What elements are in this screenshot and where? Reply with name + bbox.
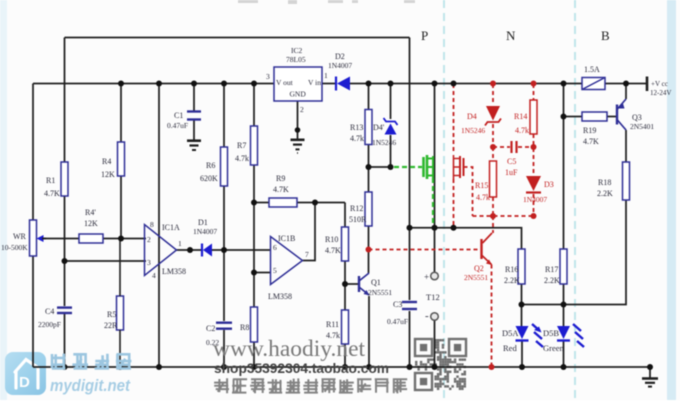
svg-text:R4: R4 [102, 157, 111, 166]
svg-text:GND: GND [290, 90, 307, 99]
battery terminal + (T12) [431, 272, 439, 280]
svg-text:IC1A: IC1A [162, 223, 180, 232]
wire: P gate column (top rail down through C3) [409, 38, 411, 301]
svg-text:3: 3 [266, 72, 270, 81]
resistor R4' [79, 234, 103, 243]
wire: Q3 collector/emitter column [625, 84, 627, 100]
logo text shuma zhijia (fake cjk) [51, 353, 131, 369]
red source dashed down [453, 179, 455, 228]
wire: node y167 [369, 166, 391, 168]
svg-text:510R: 510R [349, 215, 367, 224]
svg-text:R18: R18 [598, 178, 611, 187]
svg-text:Green: Green [543, 343, 565, 353]
svg-text:2.2K: 2.2K [544, 276, 560, 285]
battery terminal - (T12) [431, 313, 439, 321]
resistor R7 [251, 126, 258, 165]
svg-text:D3: D3 [544, 180, 554, 189]
svg-text:R6: R6 [206, 161, 215, 170]
resistor R4 [118, 142, 125, 176]
resistor R12 [365, 192, 372, 226]
resistor R19 [582, 112, 607, 121]
ground bus dots [62, 364, 68, 370]
svg-text:1N4007: 1N4007 [523, 195, 547, 204]
svg-text:R1: R1 [46, 176, 55, 185]
svg-text:R12: R12 [350, 204, 363, 213]
wire: main +V bus [33, 83, 274, 85]
svg-text:0.47uF: 0.47uF [167, 121, 188, 130]
svg-text:C1: C1 [174, 111, 183, 120]
resistor R6 [221, 147, 228, 186]
capacitor C2 [216, 322, 232, 324]
svg-text:1N4007: 1N4007 [193, 227, 217, 236]
svg-text:8: 8 [150, 220, 154, 229]
transistor Q1 [358, 276, 360, 292]
svg-text:+: + [424, 272, 429, 282]
LED D5A [516, 326, 529, 339]
wire: R16/D5A column [521, 284, 523, 326]
svg-text:1uF: 1uF [505, 168, 518, 177]
cropped title remnants [238, 0, 415, 4]
svg-text:R4': R4' [85, 208, 96, 217]
red drain dashed from bus [453, 84, 455, 154]
+V terminal bar [646, 77, 649, 92]
capacitor C5 (red) [510, 141, 512, 153]
svg-text:WR: WR [13, 232, 27, 241]
svg-text:R5: R5 [107, 310, 116, 319]
svg-text:D5A: D5A [502, 328, 519, 338]
wire: R9 row and down to R10 [254, 202, 269, 204]
zone separator (cyan dashed) right [574, 0, 576, 400]
svg-text:R8: R8 [240, 323, 249, 332]
svg-text:4.7k: 4.7k [350, 134, 364, 143]
svg-text:2: 2 [300, 105, 304, 114]
diode D3 (red) [526, 176, 541, 191]
resistor R10 [342, 227, 349, 261]
QR code [415, 339, 466, 390]
wire: ground right drop [649, 367, 651, 378]
wire: pin7 output [303, 203, 316, 261]
wire: WR column [32, 84, 34, 221]
svg-text:2.2K: 2.2K [504, 276, 520, 285]
mydigit logo icon [5, 352, 46, 395]
svg-text:620K: 620K [200, 174, 218, 183]
red dashed node row y216 [473, 215, 534, 217]
red column D4/R15 [492, 84, 494, 105]
svg-text:B: B [601, 28, 610, 43]
svg-text:C5: C5 [507, 157, 516, 166]
svg-text:3: 3 [147, 258, 151, 267]
wire: R19 row [564, 116, 583, 118]
diode D2 [335, 77, 337, 91]
svg-text:1N5246: 1N5246 [372, 138, 396, 147]
svg-text:1: 1 [324, 71, 328, 80]
svg-text:+V cc: +V cc [651, 80, 668, 88]
svg-text:78L05: 78L05 [286, 55, 306, 64]
red base dashed from R12/Q1 node [369, 249, 482, 251]
svg-text:R16: R16 [505, 265, 518, 274]
left edge tint [0, 0, 7, 400]
svg-text:1N5246: 1N5246 [461, 126, 485, 135]
wire: charge row y227.7 [410, 228, 522, 249]
svg-text:www.haodiy.net: www.haodiy.net [213, 336, 366, 361]
wire: R7/R8 column [253, 84, 255, 127]
resistor R11 [342, 310, 349, 344]
resistor R17 [560, 249, 567, 284]
svg-text:C2: C2 [206, 324, 215, 333]
wire: Q1 emitter down [368, 296, 370, 367]
svg-text:2N5551: 2N5551 [464, 273, 488, 282]
zone separator (cyan dashed) left [443, 0, 445, 400]
svg-text:Red: Red [503, 343, 517, 353]
svg-text:D1: D1 [198, 218, 208, 227]
resistor R18 [623, 162, 630, 200]
ground under IC2 pin2 [297, 101, 299, 139]
wire: T12 column [434, 84, 436, 273]
svg-text:4.7K: 4.7K [273, 185, 289, 194]
red gate lead to y216 [464, 167, 473, 216]
transistor Q3 [616, 105, 618, 125]
wire: pin5 stub [254, 272, 271, 274]
red junction dots on bus [490, 81, 496, 87]
wire: IC1A supply column pin8/pin4 [158, 84, 160, 368]
resistor R15 (red) [492, 147, 494, 161]
resistor R8 [251, 307, 258, 342]
wire: R1/C4 column [64, 38, 66, 163]
red row y147 with C5 [493, 146, 510, 148]
ground under C1 [193, 121, 195, 141]
svg-text:V out: V out [276, 78, 294, 87]
svg-text:2.2K: 2.2K [597, 189, 613, 198]
svg-text:IC2: IC2 [291, 46, 303, 55]
op-amp IC1B [271, 237, 303, 285]
svg-text:LM358: LM358 [268, 292, 292, 301]
resistor R16 [518, 249, 525, 284]
resistor R13 [365, 110, 372, 145]
svg-text:12-24V: 12-24V [650, 89, 671, 97]
svg-text:N: N [506, 28, 516, 43]
svg-text:Q3: Q3 [632, 113, 642, 122]
MOSFET (red, mirrored) [454, 155, 464, 179]
wire: bottom ground bus [33, 366, 650, 368]
transistor Q2 (red) [492, 216, 494, 233]
svg-text:R11: R11 [326, 320, 339, 329]
wire: pin3 line [65, 260, 147, 262]
LED D5B [557, 326, 570, 339]
svg-text:Q2: Q2 [474, 264, 484, 273]
svg-text:2N5551: 2N5551 [368, 288, 392, 297]
capacitor C1 [193, 84, 195, 111]
node dots [62, 258, 68, 264]
svg-text:4.7K: 4.7K [583, 137, 599, 146]
svg-text:22R: 22R [104, 321, 118, 330]
svg-text:R7: R7 [237, 141, 246, 150]
svg-text:12K: 12K [84, 219, 98, 228]
resistor R5 [117, 296, 124, 330]
svg-text:1.5A: 1.5A [584, 65, 600, 74]
capacitor C4 [57, 306, 72, 308]
right edge blue band [667, 0, 676, 400]
red emitter dashed down to ground bus [491, 265, 493, 368]
svg-text:1N4007: 1N4007 [328, 61, 352, 70]
svg-text:LM358: LM358 [162, 267, 186, 276]
svg-text:R9: R9 [276, 174, 285, 183]
MOSFET (green highlight) [424, 155, 434, 179]
svg-text:1: 1 [178, 239, 182, 248]
wire: top rail [65, 37, 410, 39]
svg-text:10-500K: 10-500K [1, 243, 28, 252]
svg-text:4.7K: 4.7K [325, 246, 341, 255]
svg-text:C3: C3 [393, 300, 402, 309]
svg-text:2N5401: 2N5401 [630, 122, 654, 131]
wire: R4 column [120, 84, 122, 143]
svg-text:4.7K: 4.7K [44, 189, 60, 198]
svg-text:0.47uF: 0.47uF [387, 317, 408, 326]
svg-text:2200pF: 2200pF [38, 320, 61, 329]
resistor R14 (red) [530, 100, 537, 134]
svg-text:D: D [19, 374, 30, 391]
red column R14/D3 [533, 84, 535, 100]
potentiometer WR [30, 220, 37, 256]
svg-text:T12: T12 [426, 292, 440, 302]
svg-text:4.7k: 4.7k [515, 126, 529, 135]
svg-text:12K: 12K [101, 170, 115, 179]
svg-text:R15: R15 [475, 181, 488, 190]
resistor R9 [269, 198, 297, 207]
svg-text:D2: D2 [335, 52, 345, 61]
svg-text:D4': D4' [373, 123, 385, 132]
diode D1 [201, 244, 203, 257]
green gate dashed wire [394, 166, 422, 168]
zener D4' [384, 118, 398, 125]
svg-text:R19: R19 [583, 126, 596, 135]
svg-text:R10: R10 [325, 235, 338, 244]
wire: R6/C2 column [223, 84, 225, 148]
svg-text:IC1B: IC1B [278, 234, 295, 243]
svg-text:R14: R14 [514, 112, 527, 121]
svg-text:shop35392304.taobao.com: shop35392304.taobao.com [214, 360, 389, 376]
wire: wiper line WR to R4p to pin2 [42, 238, 79, 240]
svg-text:7: 7 [305, 250, 309, 259]
svg-text:4: 4 [152, 271, 156, 280]
svg-text:D4: D4 [467, 112, 477, 121]
wire: LED row y304.5 to R18 [522, 200, 627, 305]
watermark chinese line (scan QR) [214, 378, 407, 393]
svg-text:R13: R13 [350, 123, 363, 132]
svg-text:mydigit.net: mydigit.net [50, 377, 131, 395]
svg-text:-: - [425, 310, 429, 322]
green source dashed down [432, 178, 434, 227]
svg-text:5: 5 [273, 266, 277, 275]
wire: IC1A output to D1 to IC1B pin6 [177, 249, 203, 251]
wire: R10/R11 column and Q1 base [344, 261, 346, 310]
svg-text:2: 2 [147, 235, 151, 244]
op-amp IC1A [145, 225, 177, 276]
capacitor C3 [402, 301, 417, 303]
zener D4 (red) [486, 106, 500, 121]
svg-text:Q1: Q1 [371, 278, 381, 287]
junction dots on +V bus [118, 81, 124, 87]
IC2 regulator box [274, 67, 322, 101]
wire: R17/D5B column [563, 84, 565, 250]
ground bottom right [642, 377, 658, 380]
resistor R1 [61, 162, 68, 196]
svg-text:P: P [421, 28, 428, 43]
svg-text:C4: C4 [45, 307, 54, 316]
wire: R13/R12/Q1 column [368, 84, 370, 110]
fuse 1.5A [582, 78, 605, 90]
svg-text:V in: V in [308, 78, 321, 87]
svg-text:4.7k: 4.7k [235, 154, 249, 163]
svg-text:D5B: D5B [543, 328, 559, 338]
wire: D4p column [390, 84, 392, 120]
red node dots [366, 247, 372, 253]
svg-text:6: 6 [273, 243, 277, 252]
svg-text:R17: R17 [545, 265, 558, 274]
svg-text:4.7k: 4.7k [476, 193, 490, 202]
